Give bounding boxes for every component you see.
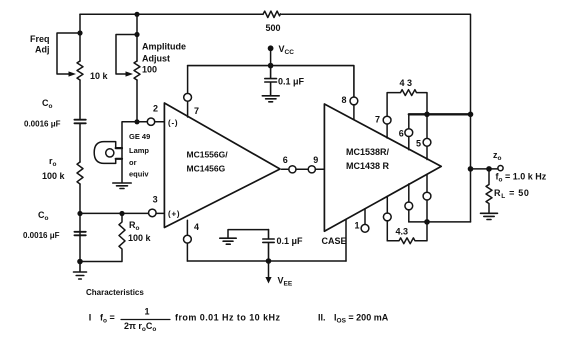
potentiometer R2 100 resistor bbox=[134, 61, 140, 80]
svg-text:Co: Co bbox=[38, 210, 49, 222]
pin 3 U2 stub bbox=[408, 184, 410, 202]
op-amp U2 MC1538R bbox=[324, 104, 441, 231]
VEE rail wire bbox=[187, 260, 346, 262]
svg-text:7: 7 bbox=[194, 106, 199, 116]
svg-text:Characteristics: Characteristics bbox=[86, 288, 144, 297]
wire pin4 U1 to VEE rail bbox=[186, 243, 188, 261]
capacitor C_o lower bbox=[74, 232, 85, 236]
resistor 500 bbox=[263, 11, 281, 17]
wire pin7 U1 to VCC rail bbox=[187, 66, 189, 94]
pin 4 U2 circle bbox=[423, 192, 431, 200]
node VCC junction bbox=[268, 63, 274, 69]
wire pin3 net bbox=[80, 212, 149, 214]
resistor r_o 100k bbox=[77, 162, 83, 184]
wire lamp branch bbox=[122, 122, 137, 148]
pin 5 U2 stubs bbox=[426, 114, 428, 159]
pin 7 U1 stub bbox=[187, 101, 189, 117]
resistor R3 4.3 top bbox=[387, 90, 427, 116]
wire lamp to ground bbox=[121, 148, 123, 183]
wire pin3 to op-amp bbox=[156, 212, 164, 214]
wire top feedback rail bbox=[80, 14, 471, 222]
capacitor C_o upper bbox=[74, 120, 85, 124]
pin 6 U2 circle bbox=[405, 129, 413, 137]
node R_o top bbox=[119, 211, 124, 216]
potentiometer R1 wiper arm bbox=[57, 33, 80, 74]
pin 4 U2 stub bbox=[426, 174, 428, 192]
pin 6 U2 stubs bbox=[408, 114, 410, 150]
svg-text:GE 49: GE 49 bbox=[129, 132, 150, 141]
ground lamp bbox=[113, 183, 131, 189]
wire pin2 bbox=[137, 121, 147, 123]
wire pin9 to U2 bbox=[315, 168, 324, 170]
svg-text:0.1 μF: 0.1 μF bbox=[277, 236, 304, 246]
svg-text:8: 8 bbox=[342, 95, 347, 105]
resistor RL 50 bbox=[486, 169, 492, 213]
svg-text:MC1456G: MC1456G bbox=[187, 164, 226, 174]
svg-text:0.0016 μF: 0.0016 μF bbox=[23, 231, 60, 240]
svg-text:2: 2 bbox=[153, 104, 158, 114]
wire lower feedback node bbox=[409, 221, 471, 223]
pin 7 U2 stub bbox=[386, 124, 388, 138]
ground left column bbox=[74, 262, 87, 280]
svg-text:100 k: 100 k bbox=[42, 171, 66, 181]
wire CASE to VEE rail bbox=[345, 219, 347, 261]
svg-text:VEE: VEE bbox=[278, 276, 293, 288]
node heavy line right bbox=[468, 112, 474, 118]
svg-text:equiv: equiv bbox=[129, 170, 149, 179]
svg-text:Co: Co bbox=[42, 98, 53, 110]
svg-text:500: 500 bbox=[266, 23, 281, 33]
potentiometer R1 10k resistor bbox=[77, 61, 83, 80]
svg-text:Lamp: Lamp bbox=[129, 146, 149, 155]
pin 1 U2 stub bbox=[364, 209, 366, 225]
svg-text:2π roCo: 2π roCo bbox=[124, 321, 156, 333]
wire output bbox=[471, 168, 498, 170]
ground C3 bbox=[220, 238, 236, 244]
node ground left bbox=[77, 259, 83, 265]
node VEE junction bbox=[266, 258, 272, 264]
pin 8 U2 stub bbox=[353, 105, 355, 119]
wire C3 to ground bbox=[228, 230, 269, 238]
op-amp U1 MC1556G bbox=[164, 103, 280, 228]
svg-text:(-): (-) bbox=[168, 119, 178, 128]
svg-text:zo: zo bbox=[493, 150, 502, 162]
VCC rail wire bbox=[188, 66, 354, 97]
svg-text:MC1556G/: MC1556G/ bbox=[187, 150, 229, 160]
svg-text:ro: ro bbox=[49, 156, 57, 168]
pin 2 circle bbox=[147, 118, 154, 125]
pin 1 U2 circle bbox=[361, 224, 369, 232]
wire pin3 U2 down bbox=[408, 210, 410, 222]
wire pin4 U2 down bbox=[426, 200, 428, 222]
capacitor C3 0.1uF bottom bbox=[263, 230, 274, 261]
svg-text:9: 9 bbox=[313, 155, 318, 165]
svg-text:5: 5 bbox=[416, 139, 421, 149]
svg-text:6: 6 bbox=[283, 155, 288, 165]
svg-text:0.0016 μF: 0.0016 μF bbox=[24, 120, 61, 129]
svg-text:MC1438 R: MC1438 R bbox=[346, 161, 390, 171]
svg-text:Amplitude: Amplitude bbox=[142, 42, 186, 52]
pin 2 U2 circle bbox=[383, 213, 391, 221]
svg-text:II.: II. bbox=[318, 313, 326, 323]
pin 4 U1 circle bbox=[184, 235, 192, 243]
svg-text:10 k: 10 k bbox=[90, 71, 109, 81]
svg-text:or: or bbox=[129, 158, 137, 167]
svg-text:0.1 μF: 0.1 μF bbox=[278, 77, 305, 87]
wire bbox=[79, 80, 81, 119]
svg-text:fo = 1.0 k Hz: fo = 1.0 k Hz bbox=[496, 172, 547, 184]
svg-text:I: I bbox=[89, 313, 92, 323]
node junction pot1 top bbox=[77, 30, 82, 35]
svg-text:4.3: 4.3 bbox=[396, 227, 409, 237]
resistor R4 4.3 bottom bbox=[387, 222, 427, 244]
wire left column bbox=[79, 14, 81, 61]
lamp filament bbox=[106, 149, 114, 157]
VEE arrow bbox=[268, 261, 270, 279]
node junction pot2 at top rail bbox=[134, 12, 139, 17]
node RL junction bbox=[486, 166, 492, 172]
svg-text:Adj: Adj bbox=[35, 45, 50, 55]
resistor R_o 100k bbox=[80, 214, 125, 262]
node pot2 wiper top bbox=[134, 32, 139, 37]
svg-text:4: 4 bbox=[194, 222, 199, 232]
VCC terminal dot bbox=[268, 45, 274, 51]
svg-text:Adjust: Adjust bbox=[142, 54, 170, 64]
node pin3 net bbox=[77, 211, 82, 216]
svg-text:Freq: Freq bbox=[30, 34, 50, 44]
svg-text:3: 3 bbox=[153, 195, 158, 205]
wire heavy feedback node bbox=[409, 113, 471, 115]
svg-text:7: 7 bbox=[375, 115, 380, 125]
pin 8 U2 circle bbox=[350, 97, 358, 105]
svg-text:Ro: Ro bbox=[129, 220, 140, 232]
terminal z_o circle bbox=[498, 166, 503, 171]
svg-text:MC1538R/: MC1538R/ bbox=[346, 147, 390, 157]
potentiometer R1 wiper arrowhead bbox=[69, 71, 77, 76]
svg-text:6: 6 bbox=[399, 129, 404, 139]
pin 3 U2 circle bbox=[405, 202, 413, 210]
wire bbox=[79, 184, 81, 262]
pin 2 U2 stub bbox=[386, 196, 388, 213]
pin 5 U2 circle bbox=[423, 138, 431, 146]
pin 3 circle bbox=[149, 209, 157, 217]
node lower feedback bbox=[424, 219, 430, 225]
svg-text:(+): (+) bbox=[168, 210, 180, 219]
svg-text:from 0.01 Hz to 10 kHz: from 0.01 Hz to 10 kHz bbox=[175, 313, 280, 323]
VCC terminal stub bbox=[270, 51, 272, 66]
wire bbox=[79, 123, 81, 162]
svg-text:CASE: CASE bbox=[322, 236, 347, 246]
svg-text:4 3: 4 3 bbox=[400, 78, 413, 88]
wire U1 output bbox=[282, 168, 289, 170]
lamp GE49 body bbox=[94, 142, 116, 164]
ground C2 bbox=[262, 96, 279, 102]
wire pin2 to op-amp bbox=[155, 121, 165, 123]
svg-text:100: 100 bbox=[142, 65, 157, 75]
pin 7 U1 circle bbox=[184, 93, 192, 101]
svg-text:1: 1 bbox=[355, 221, 360, 231]
svg-text:fo =: fo = bbox=[100, 313, 115, 325]
svg-text:IOS = 200 mA: IOS = 200 mA bbox=[334, 313, 389, 325]
pin 9 U2 circle bbox=[308, 166, 315, 173]
wire pin2 U2 down bbox=[386, 221, 388, 241]
fraction bar bbox=[121, 319, 170, 321]
pin 4 U1 stub bbox=[186, 220, 188, 235]
potentiometer R2 amplitude line bbox=[136, 14, 138, 61]
ground RL bbox=[481, 213, 498, 219]
svg-text:RL = 50: RL = 50 bbox=[494, 188, 530, 200]
node output junction bbox=[468, 166, 474, 172]
capacitor C2 0.1uF bbox=[265, 66, 277, 96]
pin 7 U2 circle bbox=[383, 116, 391, 124]
svg-text:VCC: VCC bbox=[279, 44, 295, 56]
svg-text:1: 1 bbox=[145, 307, 150, 317]
node pin2 bbox=[134, 119, 139, 124]
pin 6 U1 circle bbox=[289, 166, 296, 173]
lamp terminals bbox=[116, 148, 122, 159]
wire pot2 to pin2 node bbox=[136, 80, 138, 122]
potentiometer R2 wiper arrowhead bbox=[126, 71, 134, 76]
node heavy line mid bbox=[424, 112, 430, 118]
potentiometer R2 wiper arm bbox=[116, 35, 137, 75]
wire between circles bbox=[296, 168, 308, 170]
svg-text:100 k: 100 k bbox=[128, 233, 152, 243]
